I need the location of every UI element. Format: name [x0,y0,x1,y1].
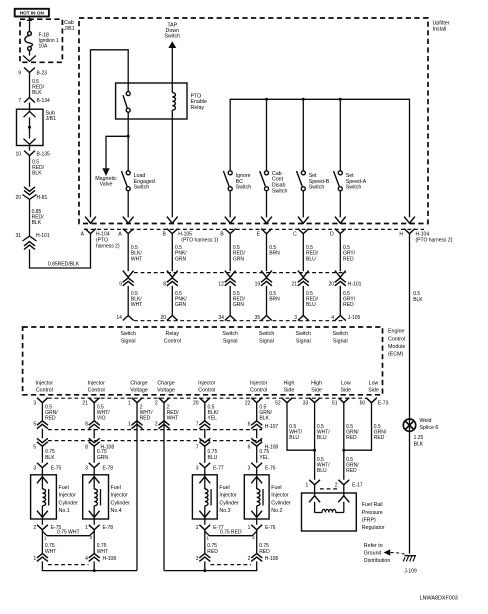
svg-text:8: 8 [163,282,166,288]
arrow to H-104 pin A [85,217,96,224]
svg-text:Cylinder: Cylinder [59,500,79,506]
relay contact [126,92,130,96]
svg-text:7: 7 [196,445,199,451]
connector pin D [335,229,346,234]
switch Set Speed-B Switch [302,99,304,171]
connector E-17 dashed line [320,488,339,490]
svg-text:2: 2 [155,401,158,407]
svg-text:E-78: E-78 [103,466,114,472]
relay coil [172,93,175,111]
wire 0.5 PNK/ GRN [171,286,173,316]
svg-text:Injector: Injector [219,493,237,499]
wire 0.5 BLK/ WHT [127,286,129,316]
svg-text:Voltage: Voltage [157,388,175,394]
ground J-109 [405,555,417,557]
svg-text:BLK: BLK [45,455,55,461]
svg-text:2: 2 [335,482,338,488]
svg-text:Injector: Injector [88,380,106,386]
wire 2 WHT/RED charge voltage [136,421,138,571]
connector E-75 pin 3 [37,463,48,468]
svg-text:(FRP): (FRP) [362,517,376,523]
ECM pin 2 [159,398,170,403]
fuel rail pressure FRP regulator [302,493,357,531]
svg-text:1: 1 [128,401,131,407]
svg-text:B-134: B-134 [37,98,51,104]
wire 0.5 GRY/ RED [339,286,341,316]
svg-text:Cylinder: Cylinder [219,500,239,506]
wire 0.5 BRN [266,234,268,272]
wire 0.75 RED [256,530,258,554]
connector H-108 pin 7 [204,429,206,439]
svg-text:No.4: No.4 [111,508,122,514]
switch Cab Cont Disab Switch [266,99,268,171]
svg-text:(ECM): (ECM) [388,352,404,358]
svg-text:Control: Control [250,388,267,394]
svg-text:19: 19 [255,282,261,288]
fuel injector cylinder No.1 [31,475,57,519]
ECM connector J-105 pin 4 [335,316,346,321]
connector E-75 pin 2 [37,525,48,530]
wire 0.5 BLK/ YEL [204,403,206,421]
connector H-107 pin 1 [132,421,143,425]
svg-text:Control: Control [388,336,405,342]
arrow to connector pin D [335,217,346,224]
svg-text:3: 3 [248,466,251,472]
connector B-23 pin 9 [24,68,35,73]
arrow to connector pin C [298,217,309,224]
wire 0.5 BLK/ WHT [127,234,129,272]
connector pin B [225,229,236,234]
ECM connector J-105 pin 20 [167,316,178,321]
wire 0.75 YEL [256,446,258,463]
svg-text:6: 6 [248,421,251,427]
wire 0.5 BLK from pin H [409,234,411,554]
junction dot [203,569,206,572]
fuel injector cylinder No.2 [244,475,269,519]
connector E-17 pin 2 [338,480,349,485]
svg-text:BRN: BRN [269,297,280,303]
svg-text:2: 2 [33,525,36,531]
svg-text:Switch: Switch [164,34,180,40]
svg-text:9: 9 [18,70,21,76]
wire 0.5 WHT/BLU pin 52 [287,403,315,451]
svg-text:BLU: BLU [306,256,316,262]
svg-text:YEL: YEL [208,415,218,421]
connector H-108 pin 1 [37,554,48,558]
svg-text:E-77: E-77 [213,466,224,472]
jumper wire 0.75 RED between E-77 and E-76 [205,530,257,536]
svg-text:Cylinder: Cylinder [271,500,291,506]
wire 0.5 GRN/ BLK [256,403,258,421]
svg-text:Pressure: Pressure [362,510,383,516]
svg-text:20: 20 [15,195,21,201]
svg-text:No.2: No.2 [271,508,282,514]
arrow to connector pin E [261,217,272,224]
svg-text:Injector: Injector [111,493,129,499]
ECM pin 22 [251,398,262,403]
connector H-107 pin 6 [251,421,262,425]
svg-text:No.1: No.1 [59,508,70,514]
wire 0.75 GRN [93,446,95,463]
wire 0.5 GRN/ RED [41,403,43,421]
svg-text:1: 1 [33,556,36,562]
svg-text:BLK: BLK [259,415,269,421]
svg-text:High: High [311,380,322,386]
ECM boundary (dashed) [23,327,383,395]
wire 0.5 RED/BLK [29,156,31,187]
ECM pin 3 [37,398,48,403]
svg-text:Switch: Switch [309,185,325,191]
svg-text:BLK: BLK [414,441,424,447]
svg-text:WHT: WHT [45,549,56,555]
connector E-77 pin 3 [199,463,210,468]
connector E-76 pin 1 [251,525,262,530]
connector B-134 pin 7 [24,98,35,103]
svg-text:H-108: H-108 [265,556,279,562]
injector common bus wire group 2 [164,561,257,570]
svg-text:Charge: Charge [130,380,147,386]
svg-text:E-76: E-76 [265,525,276,531]
svg-text:Switch: Switch [295,331,311,337]
svg-text:9: 9 [119,282,122,288]
connector J-105 row dashed line [134,320,346,322]
arrow to H-105 pin B (relay coil) [167,217,178,224]
wire 2 RED/WHT charge voltage [163,421,165,571]
svg-text:10A: 10A [39,43,49,49]
arrow to H-104 pin H [404,217,415,224]
svg-text:20: 20 [160,315,166,321]
svg-text:Ground: Ground [364,550,382,556]
wire 0.85RED/BLK to H-104 pin A [30,234,91,268]
svg-text:B: B [162,232,166,238]
svg-text:GRN: GRN [175,302,187,308]
wire 0.5 RED/ GRN [229,286,231,316]
connector H-108 pin 2 [251,554,262,558]
svg-text:1: 1 [306,482,309,488]
svg-text:3: 3 [33,466,36,472]
svg-text:5: 5 [33,445,36,451]
svg-text:Module: Module [388,344,405,350]
svg-text:Injector: Injector [198,380,216,386]
fuse F-18 Ignition 1 10A [28,32,32,36]
svg-text:3: 3 [196,466,199,472]
svg-text:34: 34 [218,315,224,321]
wire 0.5 RED/ BLU [302,286,304,316]
svg-text:Low: Low [369,380,379,386]
svg-text:Signal: Signal [223,338,238,344]
upfitter install boundary (dashed) [79,18,428,224]
svg-text:8: 8 [85,421,88,427]
connector H-107 pin 5 [37,421,48,425]
svg-text:BLU: BLU [317,435,327,441]
arrow to connector pin B [225,217,236,224]
wire 0.5 RED/ BLU [302,234,304,272]
connector H-101 pin 20 [335,271,346,278]
svg-text:2: 2 [252,535,255,540]
svg-text:Cylinder: Cylinder [111,500,131,506]
svg-text:6: 6 [248,445,251,451]
svg-text:WHT: WHT [131,256,142,262]
ECM pin 1 [132,398,143,403]
svg-text:Signal: Signal [259,338,274,344]
svg-text:H-101: H-101 [348,282,362,288]
svg-text:3: 3 [294,315,297,321]
svg-text:10: 10 [15,152,21,158]
svg-text:H-81: H-81 [37,195,48,201]
svg-text:Control: Control [88,388,105,394]
ECM pin 21 [89,398,100,403]
svg-text:Charge: Charge [157,380,174,386]
svg-text:3: 3 [33,401,36,407]
svg-text:5: 5 [33,421,36,427]
svg-text:Injector: Injector [271,493,289,499]
svg-text:Signal: Signal [296,338,311,344]
connector H-107 pin 2 [159,421,170,425]
svg-text:Fuel: Fuel [219,485,229,491]
ECM connector J-105 pin 34 [225,316,236,321]
connector B-135 pin 10 [24,151,35,156]
svg-text:B: B [220,232,224,238]
wire 0.5 GRY/ RED [339,234,341,272]
svg-text:2: 2 [248,556,251,562]
connector E-78 pin 1 [89,525,100,530]
svg-text:(PTO harness 1): (PTO harness 1) [181,238,218,244]
fuel injector cylinder No.3 [192,475,217,519]
svg-text:Side: Side [340,388,351,394]
svg-text:Relay: Relay [166,331,180,337]
junction dot bus C [302,98,305,101]
svg-text:RED: RED [346,435,357,441]
svg-text:Control: Control [164,338,181,344]
svg-text:E-75: E-75 [51,466,62,472]
svg-text:Switch: Switch [346,185,362,191]
svg-text:Fuel: Fuel [271,485,281,491]
svg-text:J/B1: J/B1 [64,26,75,32]
svg-text:Switch: Switch [259,331,275,337]
svg-text:Side: Side [311,388,322,394]
svg-text:0.85RED/BLK: 0.85RED/BLK [48,262,80,268]
svg-text:B-135: B-135 [37,152,51,158]
connector pin A [123,229,134,234]
svg-text:1: 1 [44,536,47,541]
connector pin E [261,229,272,234]
svg-text:Fuel: Fuel [111,485,121,491]
connector E-76 pin 3 [251,463,262,468]
svg-text:J-105: J-105 [348,315,361,321]
svg-text:YEL: YEL [259,455,269,461]
svg-text:Control: Control [36,388,53,394]
connector H-81 pin 20 [24,187,35,191]
svg-text:Switch: Switch [272,188,288,194]
svg-text:HOT IN ON: HOT IN ON [20,10,45,15]
ECM pin 20 [199,398,210,403]
svg-text:Splice 6: Splice 6 [420,425,439,431]
connector H-108 pin 4 [89,554,100,558]
connector E-78 pin 3 [89,463,100,468]
connector pin C [298,229,309,234]
svg-text:BLK: BLK [32,90,42,96]
connector H-108 pin 5 [41,429,43,439]
svg-text:RED: RED [343,302,354,308]
wire 0.5 WHT/BLU pin 33 [314,403,316,480]
ECM pin 52 [282,398,293,403]
ECM pin 50 [366,398,377,403]
svg-text:J/B1: J/B1 [46,116,57,122]
svg-text:Signal: Signal [121,338,136,344]
junction block Sub J/B1 [29,103,31,112]
junction dot high side [313,449,316,452]
svg-text:35: 35 [255,315,261,321]
power label HOT IN ON [15,9,49,17]
connector H-101 pin 19 [261,271,272,278]
connector H-107 row dashed line [48,429,262,431]
svg-text:14: 14 [116,315,122,321]
svg-text:Engine: Engine [388,329,405,335]
switch supply bus wire [230,99,409,217]
svg-text:Refer to: Refer to [364,543,383,549]
svg-text:harness 2): harness 2) [96,244,120,250]
svg-text:H-107: H-107 [265,424,279,430]
wire 0.75 WHT [41,530,43,554]
ECM connector J-105 pin 14 [123,316,134,321]
svg-text:BLU: BLU [289,435,299,441]
junction dot below relay [127,135,130,138]
svg-text:21: 21 [291,282,297,288]
svg-text:GRN: GRN [97,455,109,461]
svg-text:J-109: J-109 [404,568,417,574]
svg-text:Distribution: Distribution [364,558,391,564]
connector H-101 pin 8 [167,271,178,278]
svg-text:GRN: GRN [233,302,245,308]
svg-text:BLU: BLU [208,455,218,461]
svg-text:GRN: GRN [175,256,187,262]
svg-text:H: H [399,232,403,238]
connector H-104 pin A (PTO harness 2) [85,229,96,234]
wire 0.5 PNK/ GRN [171,234,173,272]
svg-text:12: 12 [218,282,224,288]
svg-text:8: 8 [85,445,88,451]
svg-text:RED: RED [259,549,270,555]
connector H-107 pin 8 [89,421,100,425]
connector H-101 pin 9 [123,271,134,278]
ECM pin 51 [338,398,349,403]
svg-text:Control: Control [198,388,215,394]
svg-text:Voltage: Voltage [130,388,148,394]
svg-text:Switch: Switch [332,331,348,337]
svg-text:BLU: BLU [317,468,327,474]
connector E-17 pin 1 [309,480,320,485]
connector H-108 pin 6 [256,429,258,439]
svg-text:C: C [293,232,297,238]
svg-text:BLK: BLK [32,171,42,177]
connector E-77 pin 2 [199,525,210,530]
connector H-108 pin 3 [199,554,210,558]
wire 0.85 RED/BLK [29,199,31,236]
svg-text:50: 50 [360,401,366,407]
svg-text:WHT: WHT [97,549,108,555]
connector row dashed line [84,228,424,230]
svg-text:20: 20 [328,282,334,288]
wire 2 RED/ WHT [163,403,165,421]
arrow to H-104 pin A (load engaged) [123,217,134,224]
svg-text:51: 51 [332,401,338,407]
svg-text:E-78: E-78 [103,525,114,531]
junction block Cab J/B1 (dashed) [20,19,62,62]
connector H-105 pin B (PTO harness 1) [167,229,178,234]
svg-text:No.3: No.3 [219,508,230,514]
svg-text:Switch: Switch [134,185,150,191]
weld splice 6 [403,419,415,431]
svg-text:E: E [257,232,261,238]
svg-text:Side: Side [284,388,295,394]
svg-text:WHT: WHT [131,302,142,308]
svg-text:Regulator: Regulator [362,525,385,531]
svg-text:22: 22 [245,401,251,407]
fuel injector cylinder No.4 [83,475,109,519]
svg-text:Install: Install [433,26,447,32]
svg-text:21: 21 [82,401,88,407]
wire 0.5 RED/BLK [29,73,31,98]
svg-text:High: High [284,380,295,386]
svg-text:1.25: 1.25 [414,435,424,441]
wire 0.75 RED [204,530,206,554]
svg-text:VIO: VIO [97,415,106,421]
junction dot bus D [339,98,342,101]
junction dot bus E [265,98,268,101]
junction dot in Sub J/B1 [29,117,31,138]
svg-text:7: 7 [18,98,21,104]
svg-text:BLU: BLU [306,302,316,308]
svg-text:2: 2 [155,421,158,427]
svg-text:B-23: B-23 [37,70,48,76]
svg-text:1: 1 [85,525,88,531]
svg-text:1: 1 [206,536,209,541]
switch Ignore BC Switch [228,171,232,175]
injector common bus wire group 1 [42,561,137,570]
svg-text:52: 52 [275,401,281,407]
svg-text:RED: RED [374,435,385,441]
svg-text:H-108: H-108 [103,556,117,562]
svg-text:BLK: BLK [413,297,423,303]
wire 0.75 WHT [93,530,95,554]
connector H-101 row dashed line [134,272,346,274]
wire 0.5 WHT/ VIO [93,403,95,421]
svg-text:D: D [330,232,334,238]
junction dot [93,569,96,572]
connector H-101 pin 21 [298,271,309,278]
wire 0.5 RED/ GRN [229,234,231,272]
svg-text:RED: RED [346,468,357,474]
switch Set Speed-A Switch [339,99,341,171]
svg-text:LNWA8DXF003: LNWA8DXF003 [420,596,458,602]
ECM connector J-105 pin 35 [261,316,272,321]
svg-text:Injector: Injector [36,380,54,386]
svg-text:GRN: GRN [233,256,245,262]
svg-text:Signal: Signal [333,338,348,344]
arrow out of Sub J/B1 [24,139,36,145]
svg-text:Injector: Injector [250,380,268,386]
svg-text:RED: RED [45,415,56,421]
connector H-107 pin 7 [199,421,210,425]
wire from HOT IN ON into fuse [29,17,31,33]
svg-text:(PTO harness 2): (PTO harness 2) [416,238,453,244]
svg-text:Switch: Switch [222,331,238,337]
connector H-108 row dashed line [48,440,262,442]
svg-text:20: 20 [193,401,199,407]
svg-text:1: 1 [128,421,131,427]
svg-text:Injector: Injector [59,493,77,499]
switch Load Engaged Switch [127,136,129,171]
